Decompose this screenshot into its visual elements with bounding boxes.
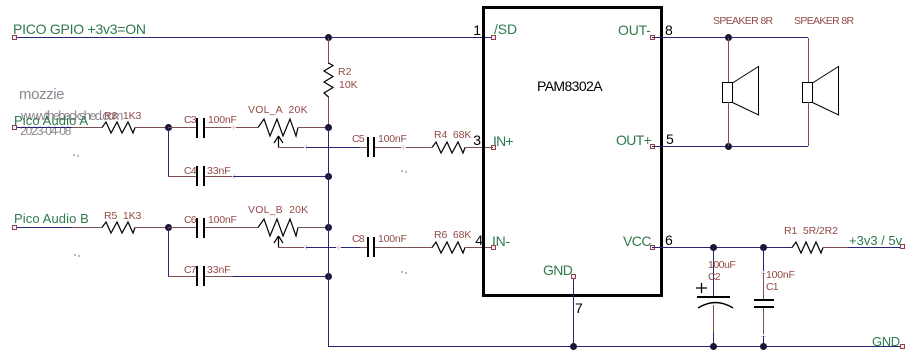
- label C3 100nF: [208, 115, 237, 126]
- label VOL_B 20K: [248, 205, 308, 216]
- port Pico Audio B: [12, 225, 17, 230]
- capacitor C3: [196, 118, 198, 138]
- capacitor C5: [367, 137, 369, 157]
- wire wiper to C5: [306, 147, 360, 148]
- label C5: [352, 134, 364, 145]
- pin 7 square: [571, 274, 576, 279]
- pin name GND: [543, 263, 572, 277]
- label C7 33nF: [207, 265, 231, 276]
- label SPEAKER8R 2: [794, 16, 853, 27]
- potentiometer VOL_A: [258, 118, 298, 137]
- capacitor C7 lead right: [205, 276, 233, 277]
- net label GND right: [872, 335, 900, 348]
- capacitor C8 lead right: [375, 247, 432, 248]
- label C2 100uF: [708, 260, 735, 271]
- capacitor C1 top plate: [754, 299, 774, 301]
- junction VCC C2: [710, 244, 717, 251]
- label C4: [184, 166, 196, 177]
- wire mid column vertical: [328, 128, 329, 346]
- port PICO GPIO: [12, 35, 17, 40]
- pin 8 number: [665, 23, 673, 37]
- wire top rail /SD: [17, 37, 491, 38]
- resistor R2 leads: [328, 38, 329, 64]
- junction top rail / R2: [325, 34, 332, 41]
- wire wiper to C8: [306, 247, 360, 248]
- pin 4 number: [472, 233, 483, 247]
- pin name OUT+: [616, 133, 651, 147]
- pin name VCC: [623, 234, 651, 248]
- wire Pico Audio A: [17, 127, 72, 128]
- resistor R3: [102, 121, 135, 134]
- net label Pico Audio B: [14, 212, 89, 225]
- resistor R4: [432, 141, 465, 154]
- pin 5 number: [666, 132, 674, 146]
- pin 6 square: [650, 245, 655, 250]
- wire Pico Audio B: [17, 227, 72, 228]
- vertex cross: [232, 176, 237, 177]
- capacitor C6 lead right: [205, 227, 258, 228]
- junction C1 rail: [760, 343, 767, 350]
- port GND right: [900, 344, 905, 349]
- capacitor C1 lead bottom: [763, 308, 764, 336]
- label C8 100nF: [378, 234, 407, 245]
- resistor R4 lead to pin / row IN+ wire into IC: [491, 147, 493, 148]
- potentiometer VOL_B lead right: [298, 227, 328, 228]
- label R6 68K: [434, 230, 471, 241]
- text mozzie: [19, 87, 64, 102]
- pin 3 square: [491, 145, 496, 150]
- port Pico Audio A: [12, 125, 17, 130]
- net label Pico Audio A: [14, 114, 88, 127]
- pin 3 number: [470, 133, 481, 147]
- label C3: [184, 115, 196, 126]
- speaker LS2 cone: [812, 66, 840, 116]
- IC U1 PAM8302A box: [482, 6, 663, 297]
- capacitor C1 lead top: [763, 248, 764, 273]
- wire OUT- to speakers: [652, 37, 808, 38]
- wire C7 to mid column: [233, 276, 328, 277]
- label R3 1K3: [104, 111, 141, 122]
- capacitor C2 curved plate: [698, 300, 733, 309]
- junction C4 / mid column: [325, 173, 332, 180]
- capacitor C4: [196, 166, 198, 186]
- port +3v3: [900, 244, 905, 249]
- resistor R6: [432, 241, 465, 254]
- wire OUT+ to speakers: [652, 146, 808, 147]
- pin name /SD: [494, 22, 517, 36]
- capacitor C5 lead right: [375, 147, 432, 148]
- vertex cross: [231, 127, 236, 128]
- vertex cross: [304, 247, 309, 248]
- vertex cross: [401, 147, 406, 148]
- label C6: [184, 215, 196, 226]
- label R4 68K: [434, 130, 471, 141]
- speaker LS1 cone: [732, 66, 760, 116]
- capacitor C6: [196, 218, 198, 238]
- resistor R2: [322, 63, 335, 97]
- potentiometer VOL_A wiper arrow: [273, 136, 284, 148]
- wire VOL_A wiper: [278, 147, 306, 148]
- label C8: [352, 234, 364, 245]
- potentiometer VOL_B wiper arrow: [273, 236, 284, 248]
- label PAM8302A: [537, 79, 602, 93]
- resistor R1 lead right: [823, 247, 848, 248]
- vertex cross: [304, 147, 309, 148]
- label C1 100nF: [766, 270, 795, 281]
- resistor R1: [792, 241, 823, 254]
- capacitor C5 lead left: [360, 147, 367, 148]
- wire C4 to mid column: [233, 176, 328, 177]
- junction VOL_A right / R2 bottom: [325, 124, 332, 131]
- wire VOL_B wiper: [278, 247, 306, 248]
- text www.thebackshed.com: [21, 109, 122, 122]
- text 2023-04-08: [20, 125, 70, 137]
- wire VCC net: [652, 247, 792, 248]
- junction OUT+ speaker 1: [725, 143, 732, 150]
- pin 8 square: [650, 35, 655, 40]
- capacitor C3 lead right / wire to VOL_A: [205, 127, 258, 128]
- label R2: [338, 67, 351, 78]
- speaker LS1 lead top: [728, 38, 729, 83]
- wire C7 branch vertical: [168, 228, 169, 276]
- potentiometer VOL_A lead right: [298, 127, 328, 128]
- label VOL_A 20K: [248, 105, 308, 116]
- net label PICO GPIO +3v3=ON: [13, 22, 146, 36]
- pin 5 square: [650, 144, 655, 149]
- wire bottom GND rail: [328, 346, 901, 347]
- capacitor C3 lead left: [168, 127, 196, 128]
- label C2: [708, 272, 720, 283]
- pin name IN+: [493, 134, 513, 148]
- label SPEAKER8R 1: [713, 16, 772, 27]
- stray dots: [73, 154, 75, 156]
- junction node B: [165, 224, 172, 231]
- pin name IN-: [492, 234, 510, 248]
- pin 4 square: [491, 245, 496, 250]
- capacitor C4 lead right: [205, 176, 233, 177]
- resistor R5 lead right: [135, 227, 168, 228]
- capacitor C8: [367, 237, 369, 257]
- speaker LS1 box: [722, 82, 733, 103]
- junction node A: [165, 124, 172, 131]
- label 10K: [339, 80, 358, 91]
- junction GND rail: [570, 343, 577, 350]
- label C1: [766, 282, 778, 293]
- pin 7 number: [575, 301, 583, 315]
- capacitor C2 top plate: [697, 296, 730, 298]
- label C4 33nF: [207, 166, 231, 177]
- junction C7 / mid column: [325, 273, 332, 280]
- resistor R6 lead right: [465, 247, 491, 248]
- pin 6 number: [665, 233, 673, 247]
- capacitor C7 lead left: [168, 276, 196, 277]
- net label +3v3 / 5v: [849, 234, 902, 247]
- junction OUT- speaker 1: [725, 34, 732, 41]
- label C7: [184, 265, 196, 276]
- resistor R5: [102, 221, 135, 234]
- speaker LS2 lead bottom: [808, 102, 809, 146]
- capacitor C2 plus sign: [696, 283, 707, 293]
- pin 1 square: [491, 35, 496, 40]
- pin 1 number: [470, 23, 481, 37]
- resistor R4 lead right: [465, 147, 491, 148]
- junction C2 rail: [710, 343, 717, 350]
- pin name OUT-: [618, 23, 651, 37]
- label C5 100nF: [378, 134, 407, 145]
- capacitor C7: [196, 266, 198, 286]
- speaker LS2 lead top: [808, 38, 809, 83]
- potentiometer VOL_B: [258, 218, 298, 237]
- label C6 100nF: [208, 215, 237, 226]
- capacitor C2 lead top: [713, 248, 714, 296]
- wire GND pin to rail: [573, 279, 574, 346]
- speaker LS2 box: [802, 82, 813, 103]
- resistor R5 lead left: [72, 227, 102, 228]
- capacitor C1 bottom plate: [754, 306, 774, 308]
- vertex cross: [336, 247, 341, 248]
- capacitor C8 lead left: [360, 247, 367, 248]
- capacitor C2 lead bottom: [713, 305, 714, 332]
- resistor R3 lead left: [72, 127, 102, 128]
- speaker LS1 lead bottom: [728, 102, 729, 146]
- capacitor C4 lead left: [168, 176, 196, 177]
- resistor R3 lead right: [135, 127, 168, 128]
- wire C4 branch vertical: [168, 128, 169, 176]
- capacitor C6 lead left: [168, 227, 196, 228]
- junction VOL_B right / mid column: [325, 224, 332, 231]
- label R1 5R/2R2: [784, 226, 838, 237]
- label R5 1K3: [104, 211, 141, 222]
- junction VCC C1: [760, 244, 767, 251]
- wire R1 to +3v3 port: [848, 247, 901, 248]
